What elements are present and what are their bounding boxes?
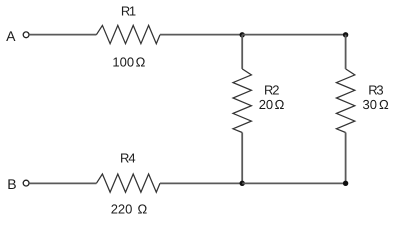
wire A to R1 — [29, 34, 96, 36]
resistor R4 — [96, 174, 160, 192]
wire node1 down to R2 — [241, 35, 243, 69]
wire node3 to node4 — [242, 182, 345, 184]
terminal B — [23, 180, 29, 186]
terminal A — [23, 32, 29, 38]
wire R1 to node1 — [160, 34, 242, 36]
junction node4 bottom of R3 — [343, 181, 348, 186]
wire B to R4 — [29, 182, 96, 184]
svg-text:220Ω: 220Ω — [111, 202, 148, 217]
resistor R3 — [336, 69, 354, 133]
svg-text:R3: R3 — [368, 82, 383, 97]
svg-text:100Ω: 100Ω — [112, 54, 145, 69]
svg-text:20Ω: 20Ω — [259, 97, 285, 112]
wire R3 to node4 — [345, 133, 347, 184]
wire R2 to node3 — [241, 133, 243, 184]
resistor R1 — [96, 25, 160, 43]
svg-text:R4: R4 — [120, 150, 135, 165]
junction node3 bottom of R2 — [240, 181, 245, 186]
svg-text:A: A — [6, 28, 16, 44]
svg-text:30Ω: 30Ω — [363, 97, 390, 112]
wire node2 down to R3 — [345, 35, 347, 69]
resistor R2 — [233, 69, 251, 133]
svg-text:B: B — [7, 176, 16, 192]
svg-text:R1: R1 — [121, 3, 136, 18]
wire node1 to node2 — [242, 34, 345, 36]
junction node2 top of R3 — [343, 32, 348, 37]
wire R4 to node3 — [160, 182, 242, 184]
junction node1 top of R2 — [240, 32, 245, 37]
svg-text:R2: R2 — [264, 82, 279, 97]
